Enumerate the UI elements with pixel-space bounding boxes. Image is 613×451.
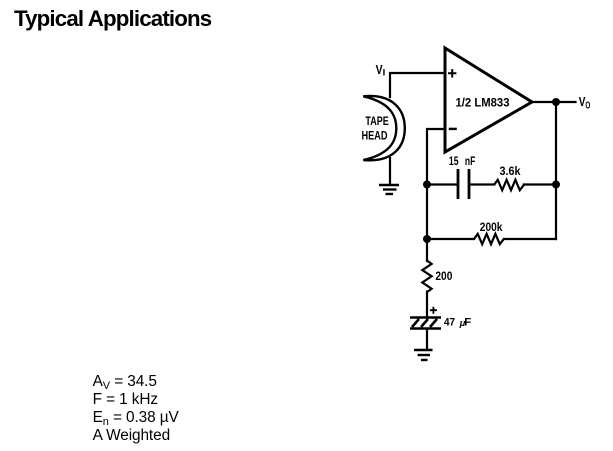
svg-text:I: I: [383, 68, 386, 79]
wire cap to resistor 3.6k: [471, 183, 557, 185]
ground (47uF): [414, 350, 433, 360]
conditions text: [93, 373, 179, 445]
wire cap to ground: [426, 329, 428, 349]
resistor R1 3.6k: [494, 164, 524, 190]
junction node B: [423, 235, 431, 243]
wire input top: [390, 73, 445, 97]
junction node output: [552, 98, 560, 106]
capacitor C2 47 uF electrolytic: [410, 307, 471, 329]
capacitor C1 15 nF: [449, 154, 475, 199]
electrolytic hatch marks: [412, 319, 437, 327]
pin - (inverting input): [449, 128, 457, 130]
svg-text:HEAD: HEAD: [362, 129, 388, 143]
pin + (non-inverting input): [448, 69, 456, 77]
svg-text:TAPE: TAPE: [365, 114, 388, 128]
wire inverting input: [427, 129, 445, 261]
junction node C: [552, 181, 560, 189]
svg-text:200: 200: [435, 269, 452, 283]
wire output: [532, 101, 576, 103]
junction node A: [423, 181, 431, 189]
svg-text:200k: 200k: [480, 220, 503, 234]
resistor R3 200: [422, 261, 452, 293]
svg-text:nF: nF: [465, 154, 475, 168]
svg-text:15: 15: [449, 154, 459, 168]
ground (tape head): [379, 185, 399, 194]
op-amp U1 1/2 LM833: [445, 48, 532, 152]
svg-text:1/2 LM833: 1/2 LM833: [456, 95, 510, 109]
tape head transducer: [362, 96, 405, 160]
svg-text:3.6k: 3.6k: [500, 164, 521, 178]
wire 200 to cap 47uF: [426, 292, 428, 318]
svg-text:O: O: [585, 100, 590, 111]
wire feedback C row: [427, 183, 456, 185]
wire right vertical: [555, 102, 557, 239]
polarity + mark: [430, 307, 437, 314]
wire 200k row: [427, 238, 556, 240]
wire tape head to ground: [389, 158, 391, 184]
resistor R2 200k: [474, 220, 504, 244]
svg-text:F: F: [464, 317, 471, 329]
title: [14, 6, 211, 32]
svg-text:47: 47: [444, 317, 455, 329]
